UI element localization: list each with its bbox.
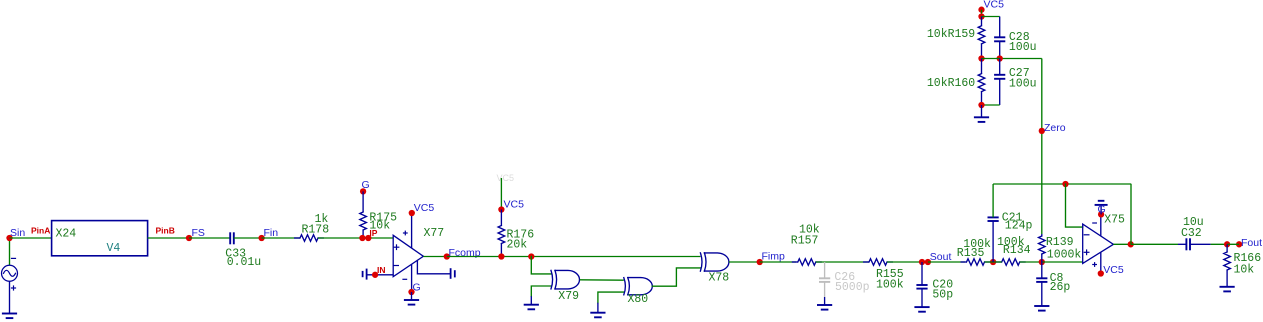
svg-text:Sout: Sout	[930, 251, 952, 263]
node Fin	[258, 235, 264, 241]
node Sout	[919, 259, 925, 265]
resistor R159 10k	[981, 17, 983, 26]
svg-text:0.01u: 0.01u	[227, 256, 262, 269]
svg-text:VC5: VC5	[984, 0, 1005, 11]
svg-text:Fimp: Fimp	[762, 251, 785, 263]
capacitor C20 50p	[921, 262, 923, 285]
capacitor C26 5000p (disabled, grey)	[824, 262, 826, 278]
inverted ground (X75 top)	[1100, 205, 1102, 215]
svg-text:10kR159: 10kR159	[927, 28, 975, 41]
svg-text:100u: 100u	[1009, 41, 1037, 54]
svg-text:26p: 26p	[1050, 281, 1071, 294]
wire R157 to R155	[816, 261, 869, 263]
wire feedback vertical	[1130, 184, 1132, 244]
wire FS to C33	[189, 237, 230, 239]
node Sin	[6, 235, 12, 241]
capacitor C8 26p	[1041, 262, 1043, 278]
wire C27 bottom to R160 bottom	[982, 104, 1000, 106]
X77 comp pin stub	[417, 261, 450, 274]
svg-text:VC5: VC5	[1103, 264, 1124, 276]
svg-text:20k: 20k	[507, 239, 528, 252]
X77 V- pin to ground	[411, 265, 413, 293]
svg-text:PinB: PinB	[156, 226, 175, 236]
ground (C26)	[824, 297, 826, 305]
svg-text:Fcomp: Fcomp	[449, 247, 481, 259]
resistor R176 20k	[500, 210, 502, 226]
svg-text:X24: X24	[56, 228, 77, 241]
resistor R134 100k	[1002, 259, 1020, 266]
svg-text:X79: X79	[558, 290, 579, 303]
wire Fimp to R157	[760, 261, 796, 263]
wire G to R175	[362, 191, 364, 212]
wire Sout to R135	[928, 261, 965, 263]
svg-text:X75: X75	[1104, 213, 1125, 226]
svg-text:G: G	[362, 179, 370, 191]
wire Fcomp to X78	[447, 256, 701, 258]
resistor R160 10k	[981, 59, 983, 74]
ground (C20)	[914, 306, 929, 308]
wire R155 to Sout	[887, 261, 922, 263]
terminal G above R175	[360, 188, 366, 194]
wire junction to X75 +input	[1042, 261, 1083, 263]
wire R178 to IP node	[318, 237, 393, 239]
wire feedback to X75 -input	[1066, 184, 1083, 227]
resistor R157 10k	[798, 259, 816, 266]
svg-text:X78: X78	[709, 272, 730, 285]
svg-text:G: G	[413, 282, 421, 294]
svg-text:VC5: VC5	[504, 199, 525, 211]
node R135/R134/C21 junction	[990, 259, 996, 265]
svg-text:X77: X77	[424, 227, 445, 240]
node feedback/inverting junction	[1062, 181, 1068, 187]
svg-text:124p: 124p	[1005, 220, 1033, 233]
svg-text:G: G	[1098, 203, 1106, 215]
resistor R155 100k	[869, 259, 887, 266]
resistor R139 1000k	[1041, 234, 1043, 236]
node divider mid junctions	[978, 55, 984, 61]
subcircuit X24 (V4)	[52, 221, 148, 256]
svg-text:FS: FS	[192, 227, 205, 239]
svg-text:5000p: 5000p	[835, 281, 870, 294]
node R166 junction	[1224, 241, 1230, 247]
capacitor C28 100u	[999, 17, 1001, 38]
op-amp X75	[1083, 224, 1114, 263]
svg-text:VC5: VC5	[414, 202, 435, 214]
resistor R135 100k	[967, 259, 985, 266]
svg-text:Sin: Sin	[10, 227, 25, 239]
node R134/R139/C8 junction	[1039, 259, 1045, 265]
wire X80 bottom input from ground	[598, 292, 624, 303]
node Fcomp	[444, 253, 450, 259]
wire divider to Zero	[1000, 58, 1042, 60]
wire X78 out to Fimp	[729, 261, 760, 263]
ground (X79 input)	[524, 304, 539, 306]
node divider bottom	[978, 102, 984, 108]
node Fimp	[757, 259, 763, 265]
wire X79 out to X80 in	[580, 279, 624, 281]
node R176/Fcomp junction	[498, 253, 504, 259]
resistor R166 10k	[1226, 244, 1228, 252]
XOR gate X78	[700, 253, 702, 271]
svg-text:10k: 10k	[1234, 264, 1255, 277]
wire X80 out to X78 bottom input	[652, 268, 700, 286]
svg-text:100u: 100u	[1009, 78, 1037, 91]
ground (below source)	[2, 313, 17, 315]
svg-text:PinA: PinA	[31, 226, 50, 236]
XOR gate X79	[551, 270, 553, 289]
node FS	[186, 235, 192, 241]
capacitor C21 124p	[992, 221, 994, 262]
svg-text:IN: IN	[377, 265, 386, 275]
svg-text:R135: R135	[957, 247, 985, 260]
wire output to C32	[1131, 243, 1178, 245]
svg-text:100k: 100k	[876, 278, 904, 291]
terminal VC5 above R176	[500, 178, 502, 210]
ground (divider)	[981, 105, 983, 117]
ground (X80 input)	[590, 312, 605, 314]
X75 V+ pin to VC5	[1100, 252, 1102, 273]
X77 V+ pin to VC5	[411, 213, 413, 248]
wire C33 to Fin	[234, 237, 262, 239]
capacitor C27 100u	[999, 59, 1001, 75]
svg-text:VC5: VC5	[497, 173, 515, 183]
ground (X77)	[411, 292, 413, 300]
wire Sin to X24	[10, 237, 52, 239]
svg-text:R178: R178	[302, 223, 330, 236]
terminal VC5 top	[978, 7, 984, 13]
svg-text:R139: R139	[1046, 236, 1074, 249]
X75 V- pin to inverted ground	[1100, 214, 1102, 236]
svg-text:C32: C32	[1181, 227, 1202, 240]
op-amp X77	[393, 235, 423, 276]
wire junction to X79 top input	[531, 257, 551, 274]
node IP junction dots	[359, 235, 365, 241]
svg-text:X80: X80	[628, 293, 649, 306]
node X79 branch junction	[528, 253, 534, 259]
node Fout	[1236, 241, 1242, 247]
svg-text:IP: IP	[369, 228, 377, 238]
ground (C8)	[1034, 305, 1049, 307]
XOR gate X80	[624, 278, 626, 295]
node X75 output	[1128, 241, 1134, 247]
wire X75 output	[1113, 243, 1130, 245]
svg-text:50p: 50p	[932, 288, 953, 301]
feedback wire top	[993, 183, 1131, 185]
svg-text:R157: R157	[791, 234, 819, 247]
wire X79 bottom input from ground	[531, 286, 551, 296]
svg-text:1000k: 1000k	[1047, 248, 1082, 261]
resistor R175 10k	[360, 212, 367, 230]
wire X24 to FS	[148, 237, 189, 239]
ground (R166)	[1220, 286, 1235, 288]
wire Zero net vertical	[1041, 59, 1043, 235]
wire X77 output to Fcomp	[423, 256, 446, 258]
resistor R178 1k	[300, 235, 318, 242]
svg-text:R134: R134	[1003, 244, 1031, 257]
svg-text:Fin: Fin	[264, 227, 279, 239]
node Zero	[1039, 128, 1045, 134]
voltage source V? (sine)	[9, 238, 11, 265]
svg-text:Zero: Zero	[1044, 122, 1066, 134]
capacitor C32 10u	[1185, 238, 1187, 250]
svg-text:V4: V4	[107, 242, 121, 255]
capacitor C33 0.01u	[229, 232, 231, 244]
X77 inverting input stub IN	[367, 274, 394, 276]
node divider top junction	[978, 13, 984, 19]
svg-text:Fout: Fout	[1241, 237, 1262, 249]
svg-text:10kR160: 10kR160	[927, 77, 975, 90]
wire Fin to R178	[262, 237, 300, 239]
